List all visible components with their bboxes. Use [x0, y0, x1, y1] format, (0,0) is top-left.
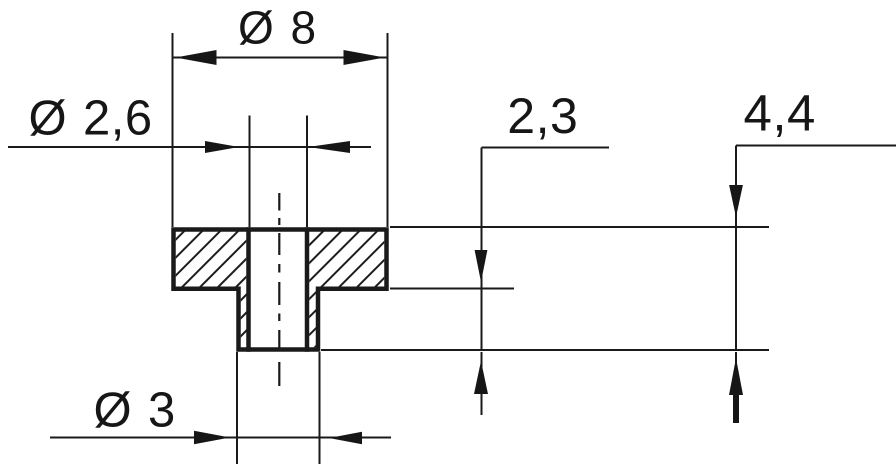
extension line flange bottom right	[390, 288, 514, 290]
arrow 2,3 down	[475, 250, 488, 282]
arrow dia2.6 left	[205, 141, 239, 153]
hatched section sleeve left wall	[241, 291, 247, 347]
extension line flange top right	[390, 226, 769, 228]
centerline dash-dot	[278, 193, 280, 386]
leader 4,4 vertical	[735, 146, 737, 352]
svg-text:4,4: 4,4	[744, 84, 816, 141]
arrow 4,4 down	[729, 185, 743, 217]
leader 4,4 thick tail	[733, 394, 739, 423]
leader 4,4 tail below	[735, 352, 737, 394]
extension line hole right	[306, 116, 308, 228]
extension line sleeve bottom right	[321, 349, 769, 351]
arrow 2,3 up	[474, 361, 488, 394]
leader 2,3 tail below	[481, 352, 483, 415]
svg-text:8: 8	[291, 2, 317, 54]
dimension line dia2.6	[8, 146, 371, 148]
leader 4,4 horizontal	[736, 145, 896, 147]
arrow dia3 left	[194, 431, 230, 444]
svg-text:Ø: Ø	[238, 2, 274, 54]
arrow dia8 left	[176, 50, 217, 65]
extension line sleeve right below	[319, 352, 321, 464]
svg-text:Ø: Ø	[94, 383, 132, 437]
extension line left of dia8	[172, 33, 174, 227]
dimension line dia3	[50, 437, 391, 439]
hatched section right flange	[309, 232, 384, 287]
svg-text:2,3: 2,3	[507, 88, 578, 144]
hatched section left flange	[176, 232, 247, 287]
arrow dia3 right	[329, 432, 362, 444]
extension line right of dia8	[387, 33, 389, 227]
hole edge right	[305, 227, 310, 351]
part outline T-section	[174, 230, 387, 350]
leader 2,3 horizontal	[482, 147, 610, 149]
arrow dia2.6 right	[308, 141, 350, 153]
svg-text:3: 3	[148, 383, 175, 437]
dimension line dia8	[173, 57, 388, 59]
arrow 4,4 up	[729, 358, 743, 395]
extension line sleeve left below	[236, 352, 238, 464]
arrow dia8 right	[344, 50, 385, 65]
hole edge left	[246, 227, 251, 351]
hatched section sleeve right wall	[309, 291, 316, 347]
svg-text:2,6: 2,6	[83, 92, 153, 146]
extension line hole left	[249, 116, 251, 228]
svg-text:Ø: Ø	[29, 92, 67, 146]
leader 2,3 vertical	[481, 148, 483, 352]
